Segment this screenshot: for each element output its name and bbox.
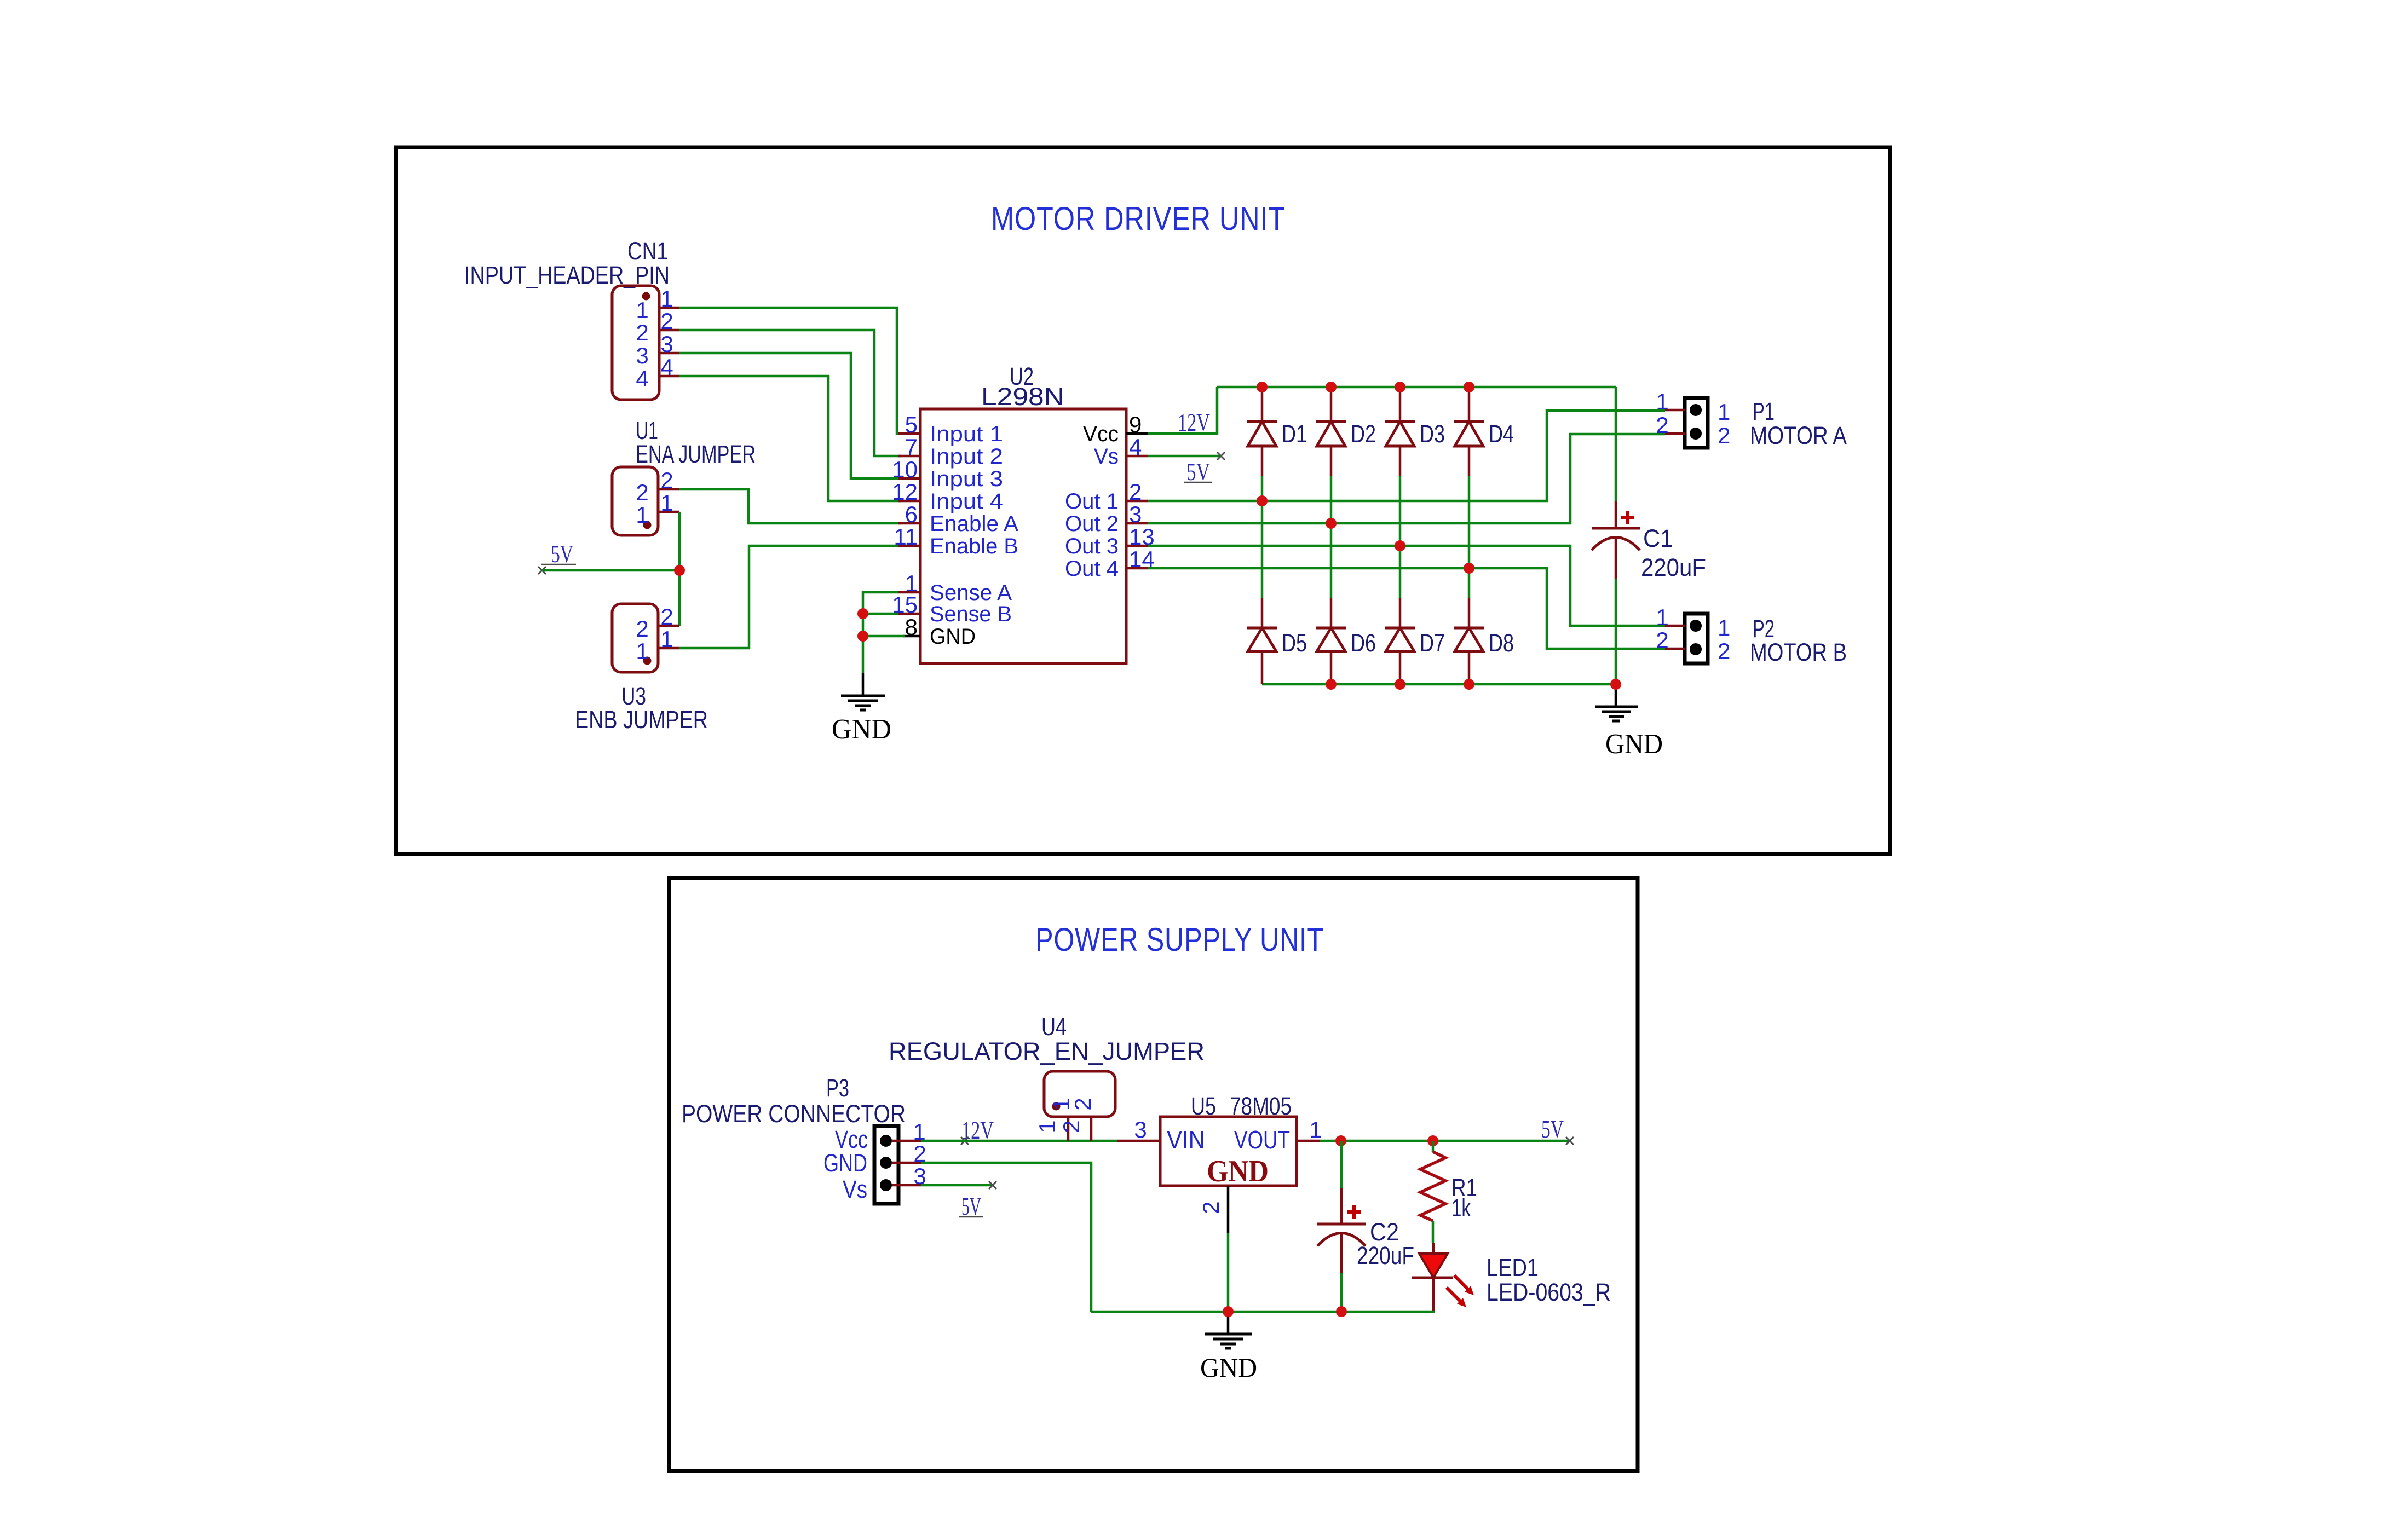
- junction bottom bus at D6: [1326, 679, 1337, 690]
- junction R1 node: [1427, 1135, 1438, 1146]
- svg-text:1: 1: [636, 502, 648, 528]
- svg-text:2: 2: [1058, 1120, 1084, 1133]
- wire U5.2 down to rail: [1227, 1233, 1230, 1312]
- pin U2.5 Input 1: [898, 412, 1003, 446]
- net label 12V bottom: [961, 1116, 994, 1145]
- net label 5V left: [538, 540, 576, 574]
- svg-text:Out 4: Out 4: [1065, 557, 1119, 581]
- pin U2.2 Out 1: [1065, 479, 1148, 513]
- svg-text:Out 3: Out 3: [1065, 534, 1119, 558]
- svg-text:U4: U4: [1041, 1013, 1067, 1041]
- capacitor C1 220uF: [1592, 387, 1640, 684]
- svg-text:MOTOR DRIVER UNIT: MOTOR DRIVER UNIT: [991, 200, 1286, 237]
- connector P2: [1685, 614, 1708, 663]
- svg-text:1: 1: [1656, 604, 1668, 630]
- diode D7: [1385, 546, 1415, 684]
- svg-text:2: 2: [1718, 423, 1730, 448]
- junction top bus at D1: [1257, 382, 1268, 392]
- wire U2 Out 3 to P2.1: [1148, 546, 1665, 626]
- pin U2.6 Enable A: [898, 501, 1018, 536]
- pin P3.1 Vcc: [835, 1119, 926, 1153]
- svg-text:INPUT_HEADER_PIN: INPUT_HEADER_PIN: [464, 261, 670, 289]
- junction Out2 at D2: [1326, 518, 1337, 529]
- pin U2.11 Enable B: [894, 524, 1018, 558]
- svg-text:D5: D5: [1282, 629, 1307, 657]
- svg-text:1: 1: [660, 490, 673, 516]
- diode D6: [1316, 523, 1346, 684]
- ground symbol power section: [1205, 1312, 1252, 1348]
- pin U2.8 GND: [903, 614, 976, 649]
- svg-text:Input 3: Input 3: [930, 467, 1003, 491]
- svg-text:3: 3: [660, 331, 673, 357]
- pin U2.9 Vcc: [1083, 412, 1148, 446]
- svg-text:D6: D6: [1351, 629, 1376, 657]
- pin CN1.1: [659, 286, 679, 311]
- pin U2.4 Vs: [1094, 434, 1148, 469]
- wire P3.1 to U5 VIN: [921, 1140, 1117, 1142]
- svg-text:4: 4: [1129, 434, 1142, 460]
- svg-text:D8: D8: [1489, 629, 1514, 657]
- pin U5.3 VIN: [1117, 1117, 1205, 1154]
- svg-text:1k: 1k: [1451, 1194, 1471, 1222]
- svg-text:12: 12: [892, 479, 918, 505]
- svg-text:Enable A: Enable A: [930, 512, 1018, 536]
- jumper U1 ENA: [612, 467, 658, 535]
- pin U2.13 Out 3: [1065, 524, 1155, 558]
- svg-text:2: 2: [1656, 627, 1668, 653]
- svg-text:VIN: VIN: [1167, 1125, 1205, 1154]
- connector P3 POWER CONNECTOR: [874, 1126, 898, 1204]
- wire VOUT to 5V: [1320, 1140, 1570, 1142]
- svg-text:Vcc: Vcc: [1083, 422, 1119, 446]
- svg-text:5V: 5V: [551, 540, 573, 568]
- svg-text:220uF: 220uF: [1641, 553, 1706, 581]
- svg-text:2: 2: [660, 604, 673, 630]
- svg-text:5: 5: [905, 412, 918, 437]
- svg-text:REGULATOR_EN_JUMPER: REGULATOR_EN_JUMPER: [889, 1037, 1205, 1065]
- pin U2.15 Sense B: [892, 592, 1012, 626]
- svg-text:L298N: L298N: [981, 383, 1064, 411]
- svg-text:Sense A: Sense A: [930, 581, 1012, 605]
- wire U3.1 to U2 pin11 Enable B: [679, 546, 901, 648]
- svg-text:1: 1: [1034, 1120, 1060, 1133]
- junction Out3 at D3: [1395, 540, 1405, 551]
- svg-text:Vs: Vs: [843, 1175, 867, 1203]
- frame MOTOR DRIVER UNIT box: [396, 147, 1890, 854]
- svg-text:2: 2: [660, 308, 673, 334]
- svg-text:GND: GND: [1200, 1352, 1257, 1383]
- svg-text:5V: 5V: [1186, 458, 1210, 486]
- IC U2 L298N body: [920, 409, 1126, 663]
- svg-text:Sense B: Sense B: [930, 602, 1012, 626]
- junction rail at C2: [1336, 1306, 1347, 1317]
- pin U1.2: [658, 467, 679, 493]
- wire U2 GND pin: [863, 635, 905, 638]
- svg-text:Input 1: Input 1: [930, 422, 1003, 446]
- jumper U3 ENB: [612, 604, 658, 672]
- pin P1.1: [1656, 389, 1730, 425]
- pin U2.7 Input 2: [898, 434, 1003, 469]
- svg-text:Enable B: Enable B: [930, 534, 1018, 558]
- svg-text:Out 2: Out 2: [1065, 512, 1119, 536]
- svg-text:3: 3: [636, 343, 648, 368]
- svg-text:Input 4: Input 4: [930, 489, 1003, 513]
- wire U1.1 to U3.2 vertical: [678, 512, 681, 626]
- pin U3.2: [658, 604, 679, 630]
- net label 5V at P3: [959, 1192, 983, 1220]
- wire U1.2 to U2 pin6 Enable A: [679, 489, 901, 523]
- svg-text:D2: D2: [1351, 420, 1376, 448]
- ground symbol right of diode matrix: [1595, 684, 1638, 721]
- svg-text:3: 3: [1129, 501, 1142, 527]
- pin U1.1: [658, 490, 679, 516]
- pin CN1.2: [659, 308, 679, 334]
- wire GND rail bottom: [1091, 1311, 1433, 1312]
- pin U5.1 VOUT: [1234, 1117, 1322, 1154]
- svg-text:10: 10: [892, 457, 918, 482]
- svg-text:78M05: 78M05: [1230, 1092, 1292, 1120]
- svg-text:4: 4: [636, 366, 648, 391]
- wire P3.3 Vs 5V stub: [921, 1181, 996, 1189]
- junction top bus at D4: [1464, 382, 1474, 392]
- wire U2 Sense B: [863, 613, 898, 615]
- pin U4.2: [1058, 1117, 1091, 1141]
- wire 12V top bus: [1217, 386, 1616, 389]
- pin P2.1: [1656, 604, 1730, 640]
- pin U5.2 GND bottom: [1198, 1186, 1228, 1233]
- ground symbol under U2: [841, 673, 885, 710]
- junction bottom bus at C1: [1610, 679, 1621, 690]
- frame POWER SUPPLY UNIT box: [669, 878, 1638, 1471]
- svg-text:GND: GND: [930, 625, 976, 649]
- svg-text:Input 2: Input 2: [930, 444, 1003, 469]
- pin U2.1 Sense A: [898, 570, 1012, 605]
- svg-text:5V: 5V: [961, 1192, 981, 1220]
- svg-text:U5: U5: [1191, 1092, 1216, 1120]
- svg-text:2: 2: [660, 467, 673, 493]
- junction rail at U5 GND: [1223, 1306, 1234, 1317]
- net label 5V at Vs: [1184, 452, 1225, 486]
- svg-text:ENA JUMPER: ENA JUMPER: [636, 440, 756, 468]
- svg-text:D4: D4: [1489, 420, 1514, 448]
- svg-text:9: 9: [1129, 412, 1142, 437]
- wire U2 Vcc to 12V bus: [1148, 387, 1217, 434]
- pin U2.3 Out 2: [1065, 501, 1148, 536]
- svg-text:D7: D7: [1420, 629, 1445, 657]
- junction Out1 at D1: [1257, 495, 1268, 506]
- svg-text:POWER CONNECTOR: POWER CONNECTOR: [682, 1100, 906, 1128]
- diode D3: [1385, 387, 1415, 546]
- junction VOUT C2 node: [1335, 1135, 1346, 1146]
- wire U2 Vs to 5V: [1148, 455, 1221, 458]
- wire CN1.1 to U2 pin5: [679, 308, 901, 434]
- svg-text:2: 2: [1656, 412, 1668, 438]
- svg-text:1: 1: [1656, 389, 1668, 414]
- svg-text:4: 4: [660, 354, 673, 380]
- capacitor C2 220uF: [1317, 1141, 1366, 1312]
- pin U4.1: [1034, 1117, 1068, 1141]
- LED LED1: [1412, 1243, 1474, 1312]
- diode D2: [1316, 387, 1346, 523]
- diode D1: [1247, 387, 1277, 501]
- wire CN1.3 to U2 pin10: [679, 353, 901, 478]
- junction 5V node: [674, 565, 685, 576]
- connector CN1 INPUT_HEADER_PIN: [612, 286, 659, 400]
- net label 5V right: [1541, 1115, 1574, 1145]
- svg-text:6: 6: [905, 501, 918, 527]
- svg-text:3: 3: [1134, 1117, 1147, 1142]
- diode D5: [1247, 501, 1277, 684]
- junction top bus at D3: [1395, 382, 1405, 392]
- svg-text:POWER SUPPLY UNIT: POWER SUPPLY UNIT: [1035, 921, 1324, 958]
- wire U2 Out 1 to P1.1: [1148, 411, 1665, 501]
- wire CN1.2 to U2 pin7: [679, 330, 901, 456]
- junction bottom bus at D8: [1464, 679, 1474, 690]
- svg-text:1: 1: [636, 638, 648, 664]
- svg-text:11: 11: [894, 524, 918, 550]
- svg-text:12V: 12V: [1178, 408, 1210, 436]
- pin P2.2: [1656, 627, 1730, 664]
- junction bottom bus at D7: [1395, 679, 1405, 690]
- wire CN1.4 to U2 pin12: [679, 376, 901, 501]
- pin P1.2: [1656, 412, 1730, 448]
- svg-text:2: 2: [1070, 1098, 1096, 1110]
- svg-text:1: 1: [1309, 1117, 1322, 1142]
- svg-text:1: 1: [1718, 615, 1730, 640]
- svg-text:2: 2: [1198, 1201, 1224, 1214]
- svg-text:1: 1: [1718, 399, 1730, 425]
- pin P3.3 Vs: [843, 1163, 926, 1203]
- jumper U4 REGULATOR_EN_JUMPER: [1044, 1071, 1115, 1117]
- svg-text:1: 1: [636, 297, 648, 323]
- wire U2 Out 4 to P2.2: [1148, 568, 1665, 649]
- svg-text:2: 2: [636, 616, 648, 642]
- junction Out4 at D4: [1464, 563, 1474, 574]
- pin CN1.4: [659, 354, 679, 380]
- diode D8: [1454, 568, 1484, 684]
- svg-text:GND: GND: [1605, 729, 1663, 760]
- pin U2.14 Out 4: [1065, 546, 1155, 581]
- svg-text:GND: GND: [1207, 1154, 1269, 1188]
- svg-text:D1: D1: [1282, 420, 1307, 448]
- wire U2 Sense A down: [863, 592, 898, 673]
- pin CN1.3: [659, 331, 679, 357]
- svg-text:1: 1: [660, 286, 673, 311]
- svg-text:ENB JUMPER: ENB JUMPER: [575, 706, 708, 734]
- pin U2.10 Input 3: [892, 457, 1003, 491]
- svg-text:MOTOR A: MOTOR A: [1750, 422, 1847, 449]
- junction top bus at D2: [1326, 382, 1337, 392]
- svg-text:5V: 5V: [1541, 1115, 1564, 1143]
- wire U2 Out 2 to P1.2: [1148, 434, 1665, 523]
- pin P3.2 GND: [823, 1141, 926, 1177]
- svg-text:MOTOR B: MOTOR B: [1750, 638, 1847, 666]
- pin U3.1: [658, 626, 679, 652]
- svg-text:8: 8: [905, 614, 918, 640]
- svg-text:LED-0603_R: LED-0603_R: [1487, 1278, 1611, 1306]
- svg-text:2: 2: [1129, 479, 1142, 505]
- connector P1: [1685, 398, 1708, 448]
- svg-text:2: 2: [636, 480, 648, 505]
- svg-text:LED1: LED1: [1487, 1254, 1539, 1281]
- junction Sense B node: [857, 608, 868, 619]
- pin U2.12 Input 4: [892, 479, 1003, 513]
- svg-text:7: 7: [905, 434, 918, 460]
- wire P3.2 to GND rail: [921, 1163, 1091, 1312]
- junction GND node: [857, 631, 868, 642]
- svg-text:2: 2: [1718, 638, 1730, 664]
- svg-text:220uF: 220uF: [1357, 1242, 1414, 1269]
- svg-text:C1: C1: [1643, 524, 1673, 552]
- resistor R1 1k: [1420, 1141, 1445, 1243]
- svg-text:1: 1: [660, 626, 673, 652]
- diode D4: [1454, 387, 1484, 568]
- wire GND bottom bus: [1262, 683, 1616, 686]
- svg-text:Out 1: Out 1: [1065, 489, 1119, 513]
- svg-text:D3: D3: [1420, 420, 1445, 448]
- svg-text:Vs: Vs: [1094, 444, 1119, 469]
- svg-text:P3: P3: [826, 1074, 849, 1102]
- svg-text:GND: GND: [823, 1149, 867, 1177]
- IC U5 78M05 body: [1160, 1117, 1297, 1186]
- svg-text:VOUT: VOUT: [1234, 1125, 1290, 1154]
- wire 5V to jumpers: [542, 569, 679, 572]
- svg-text:2: 2: [636, 320, 648, 345]
- svg-text:GND: GND: [832, 714, 891, 745]
